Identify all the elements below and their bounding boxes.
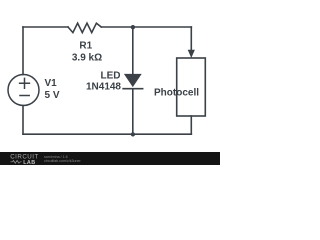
svg-text:Photocell: Photocell xyxy=(154,88,199,99)
junction node top xyxy=(131,25,135,29)
resistor R1 xyxy=(68,23,101,32)
wire: right vertical into photocell arrow xyxy=(190,27,192,50)
V1 minus sign xyxy=(20,95,29,97)
wire: top-left horizontal (V1 top to resistor) xyxy=(23,26,68,28)
svg-text:3.9 kΩ: 3.9 kΩ xyxy=(72,53,102,64)
svg-text:V1: V1 xyxy=(45,78,58,89)
LED triangle xyxy=(124,74,142,87)
wire: resistor to junction and to right corner xyxy=(101,26,191,28)
arrow into photocell xyxy=(188,50,195,58)
voltage source V1 xyxy=(8,75,39,106)
svg-text:1N4148: 1N4148 xyxy=(86,82,121,93)
wire: photocell bottom lead xyxy=(190,116,192,134)
V1 plus sign xyxy=(20,78,30,88)
svg-text:LAB: LAB xyxy=(23,160,35,165)
circuit schematic xyxy=(0,0,220,152)
photocell box xyxy=(177,58,206,116)
footer bar xyxy=(0,152,220,165)
wire: bottom horizontal xyxy=(23,133,191,135)
junction node bottom xyxy=(131,132,135,136)
LED cathode bar xyxy=(123,88,142,90)
CircuitLab logo xyxy=(9,152,49,165)
svg-text:LED: LED xyxy=(101,71,121,82)
wire: left vertical V1 bottom lead xyxy=(22,106,24,135)
wire: left vertical V1 top lead xyxy=(22,27,24,75)
svg-text:R1: R1 xyxy=(79,41,92,52)
LED D1 top lead wire xyxy=(132,27,134,74)
LED bottom lead wire xyxy=(132,89,134,134)
svg-text:5 V: 5 V xyxy=(45,90,60,101)
footer credit text xyxy=(44,155,81,163)
